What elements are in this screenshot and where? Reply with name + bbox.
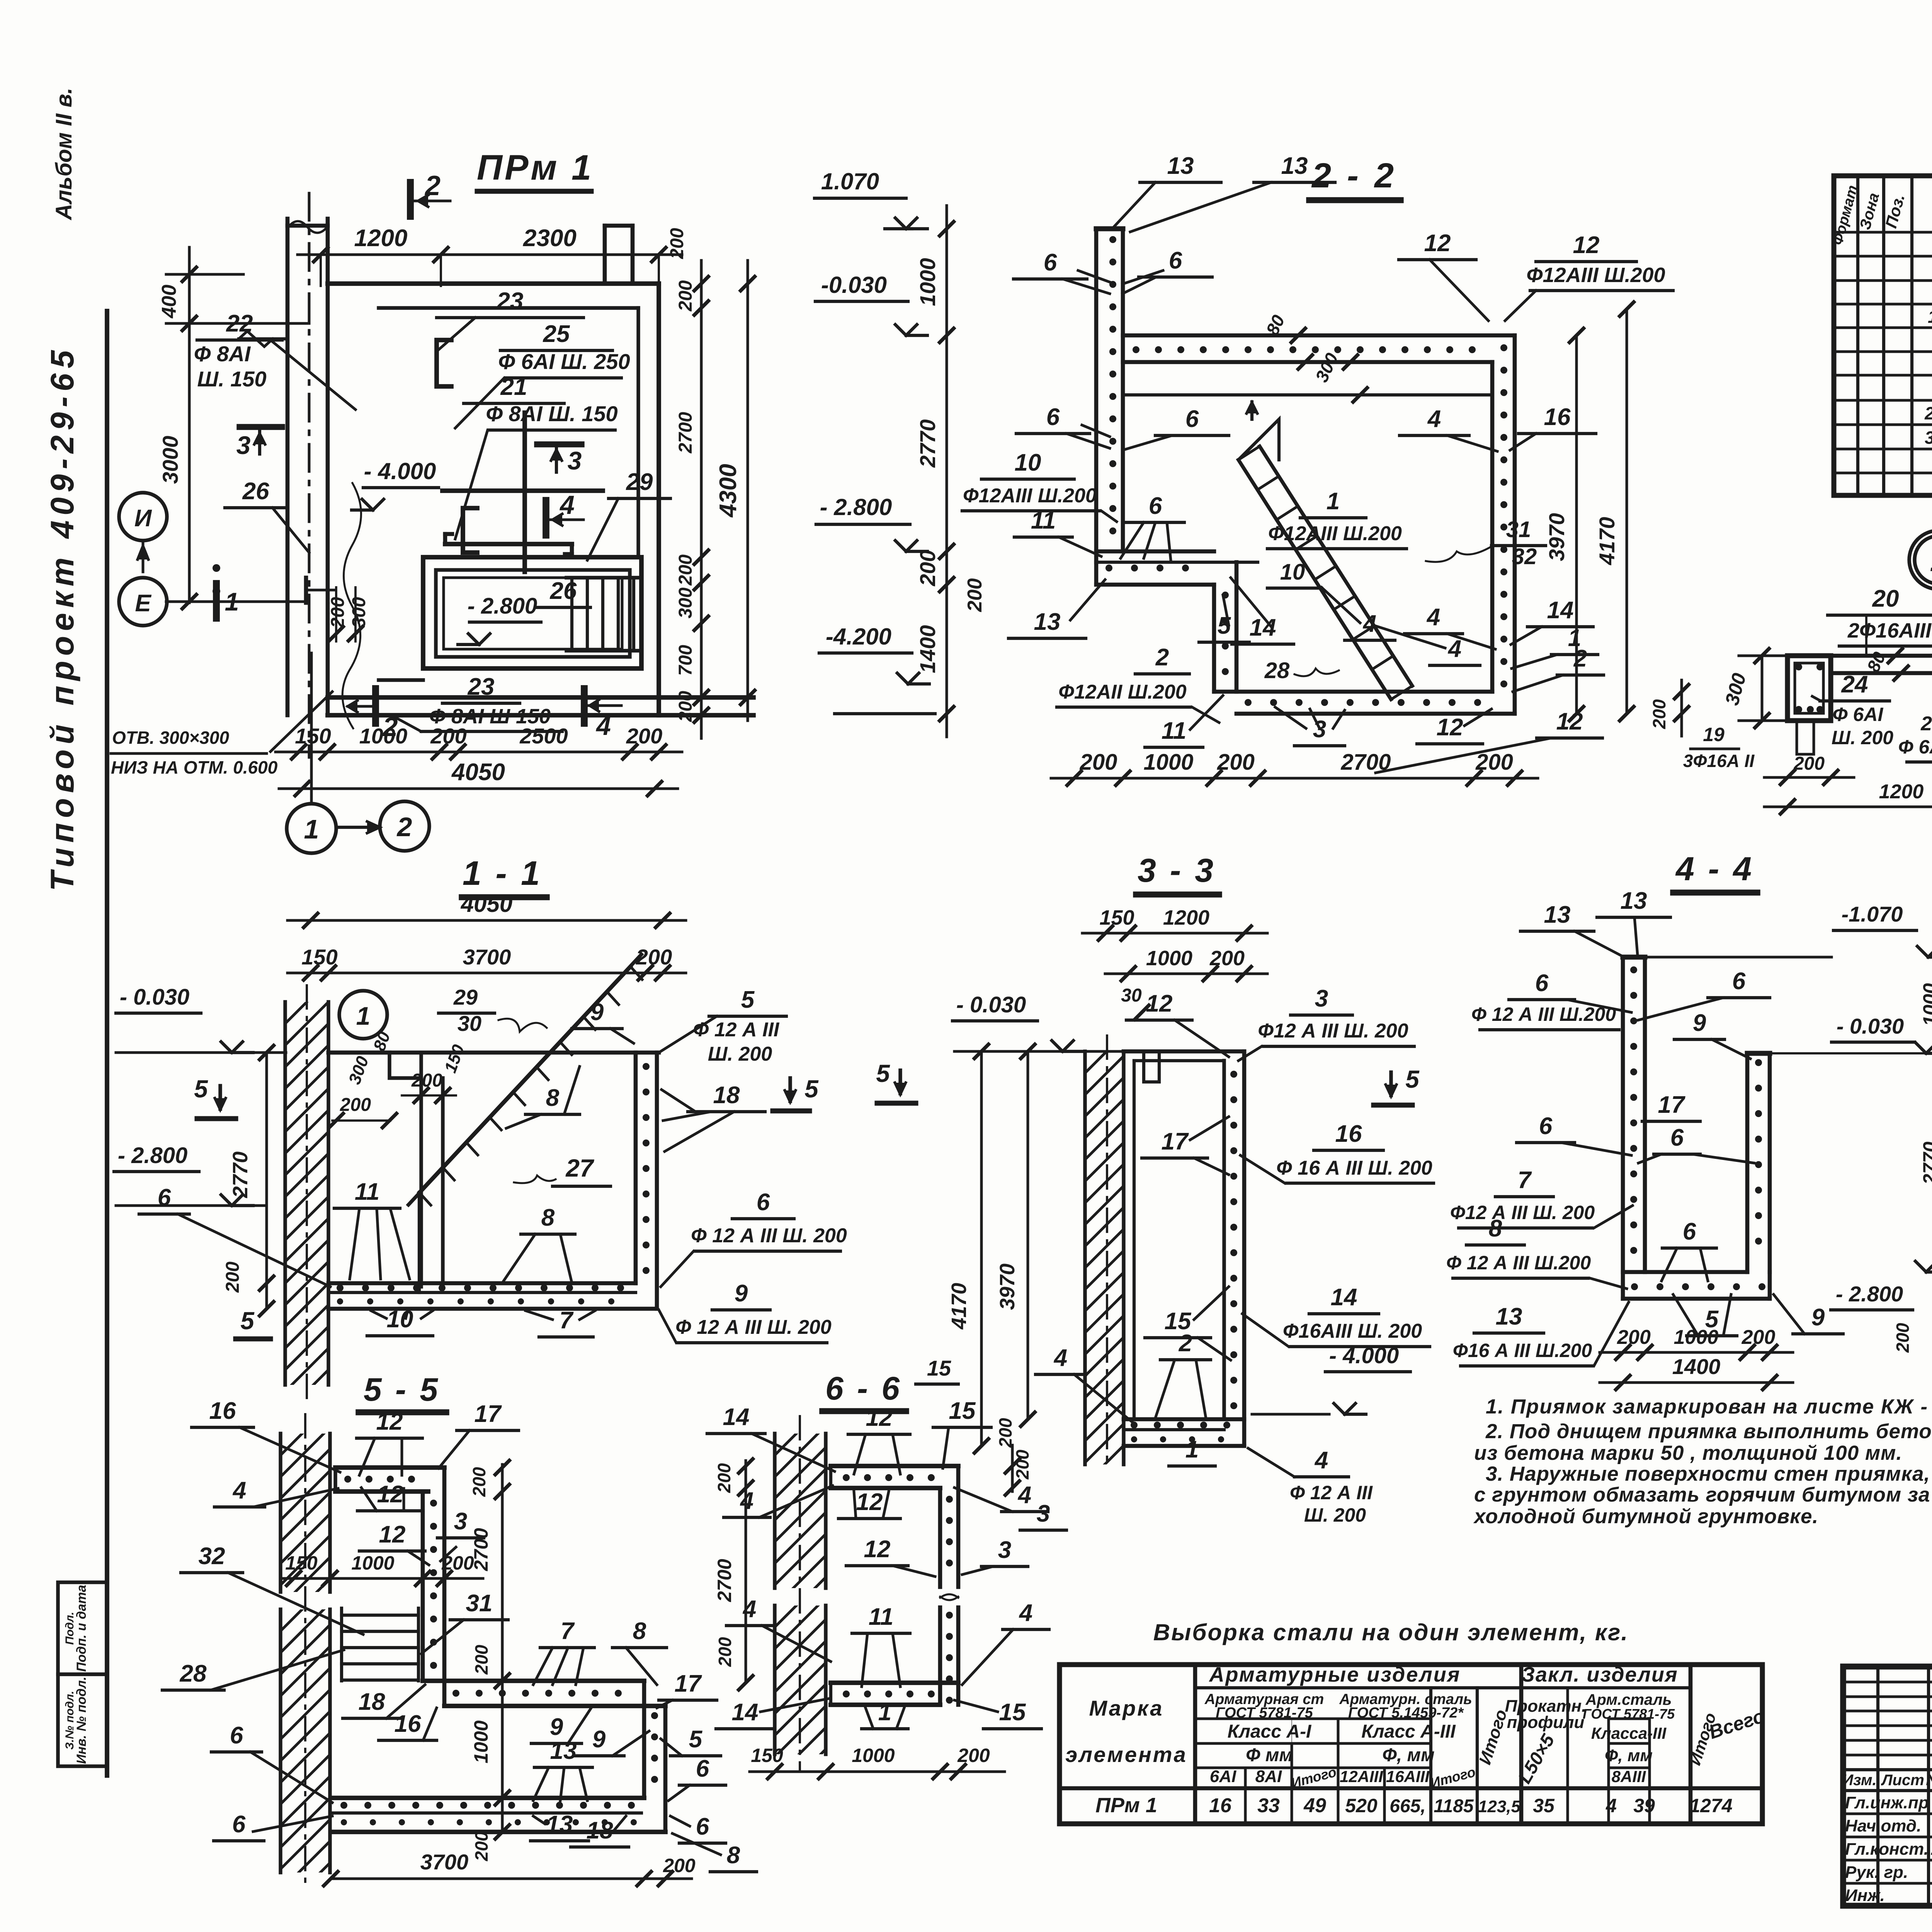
- svg-text:200: 200: [663, 1855, 696, 1876]
- svg-text:11: 11: [1031, 507, 1056, 534]
- svg-text:2770: 2770: [229, 1151, 252, 1198]
- svg-text:700: 700: [675, 645, 696, 676]
- svg-text:10: 10: [1280, 560, 1305, 585]
- 3-3: dims 1000 200: [1105, 973, 1267, 975]
- svg-text:4050: 4050: [451, 759, 505, 786]
- 5-5: bottom dims 3700 200: [331, 1878, 692, 1880]
- svg-text:-0.030: -0.030: [821, 272, 887, 298]
- svg-text:31: 31: [466, 1590, 493, 1617]
- svg-text:1000: 1000: [470, 1720, 492, 1763]
- svg-text:6: 6: [158, 1184, 171, 1211]
- svg-text:из бетона марки 50 , тол: из бетона марки 50 , толщиной 100 мм.: [1474, 1442, 1902, 1464]
- svg-text:Арматурные изделия: Арматурные изделия: [1209, 1663, 1461, 1686]
- svg-text:1200: 1200: [354, 225, 408, 252]
- svg-text:17: 17: [1162, 1128, 1189, 1155]
- svg-text:6: 6: [1732, 968, 1746, 995]
- svg-text:3: 3: [1315, 985, 1328, 1012]
- svg-text:1274: 1274: [1689, 1795, 1732, 1816]
- plan: section mark 2 bottom: [372, 689, 379, 723]
- svg-text:Ш. 200: Ш. 200: [1832, 727, 1893, 748]
- 2-2: right dim 4170: [1626, 309, 1628, 714]
- detail 1: dim 300: [1761, 656, 1764, 721]
- svg-text:- 2.800: - 2.800: [118, 1143, 188, 1168]
- svg-text:200: 200: [957, 1745, 990, 1766]
- svg-text:Е: Е: [135, 590, 151, 617]
- 5-5: mid slab: [423, 1679, 644, 1683]
- svg-text:2: 2: [1179, 1330, 1192, 1357]
- svg-text:ГОСТ 5781-75: ГОСТ 5781-75: [1216, 1705, 1313, 1721]
- svg-text:15: 15: [999, 1699, 1026, 1726]
- svg-text:39: 39: [1633, 1795, 1655, 1816]
- svg-text:холодной битумной грунтовке.: холодной битумной грунтовке.: [1473, 1505, 1818, 1528]
- svg-text:33: 33: [1257, 1794, 1280, 1817]
- svg-text:11: 11: [355, 1179, 379, 1205]
- 2-2: top slab right part: [1123, 333, 1515, 338]
- svg-text:- 0.030: - 0.030: [956, 992, 1026, 1017]
- svg-text:Ф12АIII Ш.200: Ф12АIII Ш.200: [963, 485, 1097, 507]
- svg-text:200: 200: [1742, 1326, 1776, 1349]
- svg-text:12: 12: [376, 1408, 403, 1435]
- svg-text:6: 6: [1670, 1124, 1684, 1151]
- svg-text:6: 6: [1149, 493, 1162, 519]
- svg-text:150: 150: [1099, 906, 1134, 929]
- svg-text:Ф 12 А III Ш. 200: Ф 12 А III Ш. 200: [691, 1225, 847, 1247]
- svg-text:4: 4: [1427, 406, 1441, 432]
- svg-text:200: 200: [1617, 1326, 1651, 1349]
- svg-text:16: 16: [1209, 1794, 1232, 1817]
- 1-1: diagonal stair: [419, 954, 641, 1192]
- svg-text:200: 200: [667, 228, 687, 259]
- svg-text:3: 3: [998, 1537, 1011, 1563]
- 1-1: bottom slab: [328, 1281, 636, 1286]
- svg-text:Ф, мм: Ф, мм: [1382, 1745, 1434, 1765]
- svg-text:12: 12: [1146, 990, 1173, 1017]
- svg-text:9: 9: [735, 1280, 748, 1307]
- plan: section mark 2 top: [407, 182, 414, 216]
- svg-text:1: 1: [1930, 543, 1932, 578]
- 1-1: pit top edge: [328, 1051, 659, 1055]
- 2-2: bottom slab: [1214, 690, 1492, 694]
- svg-text:-4.200: -4.200: [826, 624, 891, 650]
- svg-text:Ф 6АI Ш. 250: Ф 6АI Ш. 250: [498, 349, 630, 374]
- svg-text:1185: 1185: [1434, 1796, 1474, 1816]
- svg-text:200: 200: [1080, 750, 1117, 775]
- svg-text:Ф 12 А III Ш. 200: Ф 12 А III Ш. 200: [675, 1316, 832, 1338]
- svg-text:1: 1: [1327, 488, 1340, 515]
- spec table grid: [1834, 176, 1932, 495]
- 5-5: dim 1000: [501, 1681, 504, 1798]
- plan: axis line vertical: [310, 653, 313, 804]
- svg-text:Ф, мм: Ф, мм: [1605, 1746, 1653, 1765]
- title block left columns: [1876, 1667, 1879, 1906]
- svg-text:Класс А-I: Класс А-I: [1228, 1721, 1312, 1742]
- svg-text:6: 6: [696, 1755, 709, 1782]
- svg-text:1.070: 1.070: [821, 168, 879, 194]
- svg-text:200: 200: [1012, 1449, 1032, 1480]
- svg-text:4: 4: [1019, 1600, 1032, 1626]
- svg-text:2700: 2700: [675, 412, 696, 454]
- svg-text:200: 200: [1209, 947, 1245, 970]
- svg-text:2Ф16АIII: 2Ф16АIII: [1847, 619, 1932, 642]
- svg-text:665,: 665,: [1389, 1796, 1425, 1816]
- 5-5: existing wall hatched band lower: [279, 1609, 282, 1872]
- svg-text:Ф 16 А III Ш. 200: Ф 16 А III Ш. 200: [1276, 1157, 1432, 1179]
- svg-text:5: 5: [876, 1060, 890, 1087]
- svg-text:4: 4: [595, 711, 611, 741]
- svg-text:29;30: 29;30: [1924, 403, 1932, 423]
- 3-3: section 5 mark right: [1389, 1072, 1393, 1095]
- plan: right dim 4300: [747, 260, 749, 721]
- svg-text:12: 12: [866, 1405, 893, 1431]
- 1-1: right wall: [634, 1053, 638, 1283]
- svg-text:6: 6: [1046, 404, 1060, 430]
- svg-text:3 - 3: 3 - 3: [1138, 852, 1216, 889]
- svg-text:1 - 1: 1 - 1: [463, 854, 542, 892]
- svg-text:16АIII: 16АIII: [1386, 1767, 1430, 1786]
- 1-1: axis dashdot in wall: [306, 985, 308, 1399]
- 2-2: stair upper guard triangle: [1238, 419, 1279, 460]
- svg-text:5: 5: [240, 1307, 255, 1335]
- 2-2: rebar dots bottom slab: [1245, 699, 1252, 706]
- svg-text:9: 9: [592, 1726, 606, 1753]
- svg-text:8АIII: 8АIII: [1612, 1767, 1646, 1786]
- plan: top dimension 1200 / 2300: [298, 253, 682, 256]
- svg-text:Подп. и дата: Подп. и дата: [74, 1585, 89, 1672]
- svg-text:4300: 4300: [715, 464, 742, 518]
- svg-text:1: 1: [356, 1002, 371, 1030]
- svg-text:200: 200: [626, 724, 662, 748]
- svg-text:Типовой проект 409-29-65: Типовой проект 409-29-65: [44, 345, 80, 891]
- svg-text:200: 200: [675, 554, 696, 586]
- svg-text:Ф16АIII Ш. 200: Ф16АIII Ш. 200: [1283, 1320, 1422, 1342]
- svg-text:Ф мм: Ф мм: [1246, 1745, 1293, 1765]
- svg-text:12АIII: 12АIII: [1340, 1767, 1383, 1786]
- svg-text:Ф12 А III Ш. 200: Ф12 А III Ш. 200: [1258, 1020, 1408, 1042]
- svg-text:31: 31: [1506, 517, 1531, 542]
- svg-text:520: 520: [1345, 1795, 1378, 1816]
- 2-2: left vertical dim chain: [946, 206, 948, 737]
- svg-text:12: 12: [379, 1521, 406, 1548]
- svg-text:3970: 3970: [996, 1264, 1019, 1310]
- svg-text:10: 10: [1015, 449, 1041, 476]
- svg-text:1000: 1000: [1146, 947, 1192, 970]
- svg-text:6: 6: [1535, 970, 1549, 997]
- svg-text:13: 13: [1544, 901, 1571, 928]
- svg-text:200: 200: [714, 1463, 734, 1493]
- svg-text:1000: 1000: [359, 724, 408, 748]
- svg-text:12: 12: [864, 1536, 891, 1563]
- svg-text:Гл.инж.пр: Гл.инж.пр: [1845, 1793, 1929, 1812]
- svg-text:32: 32: [199, 1543, 225, 1570]
- plan: wall top break wave: [286, 219, 290, 226]
- svg-text:30: 30: [1121, 985, 1142, 1006]
- svg-text:16: 16: [1544, 404, 1571, 430]
- svg-text:200: 200: [675, 280, 696, 311]
- svg-text:10: 10: [387, 1306, 413, 1333]
- plan: embedded detail marks (C-shapes): [437, 340, 451, 386]
- 4-4: dim 1400: [1600, 1381, 1793, 1384]
- svg-text:3700: 3700: [420, 1850, 469, 1874]
- 2-2: right dim 3970: [1575, 335, 1578, 714]
- svg-text:2300: 2300: [523, 225, 577, 252]
- svg-text:3970: 3970: [1544, 513, 1569, 561]
- svg-text:4: 4: [232, 1477, 246, 1504]
- svg-text:Инв. № подл.: Инв. № подл.: [74, 1677, 89, 1764]
- svg-text:профили: профили: [1507, 1713, 1585, 1732]
- vyborka header structure: [1195, 1686, 1521, 1689]
- svg-text:Марка: Марка: [1089, 1696, 1164, 1720]
- svg-text:4: 4: [1426, 604, 1440, 631]
- 2-2: left wall: [1094, 229, 1099, 562]
- svg-text:1200: 1200: [1879, 781, 1924, 803]
- 2-2: rebar dots left wall: [1109, 236, 1116, 243]
- svg-text:28: 28: [1264, 658, 1290, 683]
- svg-text:1000: 1000: [1919, 983, 1932, 1026]
- svg-text:15: 15: [927, 1356, 951, 1380]
- svg-text:200: 200: [328, 597, 348, 628]
- svg-text:26: 26: [242, 478, 269, 505]
- 2-2: step wall: [1212, 585, 1216, 692]
- svg-text:2: 2: [396, 812, 412, 842]
- svg-text:11: 11: [1162, 718, 1186, 744]
- svg-text:ГОСТ 5781-75: ГОСТ 5781-75: [1583, 1706, 1675, 1722]
- svg-text:4 - 4: 4 - 4: [1675, 850, 1754, 888]
- svg-text:Ф 12 А III Ш.200: Ф 12 А III Ш.200: [1446, 1252, 1591, 1274]
- axis dim 3000 / 400: [188, 247, 191, 603]
- svg-text:ГОСТ 5,1459-72*: ГОСТ 5,1459-72*: [1348, 1705, 1464, 1721]
- 6-6: lower slab: [831, 1680, 958, 1685]
- svg-text:17: 17: [474, 1401, 502, 1427]
- svg-text:5: 5: [689, 1726, 703, 1753]
- svg-text:29: 29: [626, 469, 653, 495]
- svg-text:- 2.800: - 2.800: [820, 494, 892, 520]
- svg-text:Инж.: Инж.: [1845, 1886, 1885, 1905]
- svg-text:23: 23: [497, 288, 524, 315]
- svg-text:13: 13: [546, 1811, 573, 1838]
- plan: cross rebars mark 25/21: [522, 413, 527, 572]
- svg-text:Закл. изделия: Закл. изделия: [1521, 1663, 1678, 1686]
- 2-2: rebar dots top slab: [1133, 346, 1139, 353]
- 2-2: rebar dots lower slab: [1105, 565, 1112, 571]
- detail 1: slab line: [1831, 654, 1932, 658]
- 5-5: right wall lower: [642, 1681, 646, 1798]
- svg-text:Ш. 200: Ш. 200: [708, 1043, 772, 1065]
- svg-text:4: 4: [1053, 1345, 1067, 1371]
- svg-text:7: 7: [560, 1307, 574, 1334]
- svg-text:Ф12АIII Ш.200: Ф12АIII Ш.200: [1526, 264, 1665, 287]
- svg-text:НИЗ НА ОТМ. 0.600: НИЗ НА ОТМ. 0.600: [111, 757, 278, 777]
- svg-text:5: 5: [194, 1075, 208, 1103]
- svg-text:4: 4: [742, 1596, 756, 1622]
- svg-text:200: 200: [471, 1645, 492, 1675]
- svg-text:ПРм 1: ПРм 1: [1095, 1794, 1157, 1817]
- svg-text:20: 20: [1872, 585, 1899, 612]
- svg-text:- 4.000: - 4.000: [364, 458, 436, 484]
- svg-text:18: 18: [587, 1817, 613, 1844]
- svg-text:15: 15: [949, 1398, 976, 1424]
- svg-text:18: 18: [359, 1689, 385, 1715]
- svg-text:32: 32: [1512, 544, 1537, 569]
- svg-text:13: 13: [1496, 1303, 1522, 1330]
- svg-text:Класса-III: Класса-III: [1591, 1724, 1667, 1742]
- svg-text:Подл.: Подл.: [63, 1612, 76, 1645]
- svg-text:3Ф16А II: 3Ф16А II: [1683, 751, 1755, 771]
- plan: section mark 3 right: [537, 441, 582, 447]
- svg-text:200: 200: [1217, 750, 1255, 775]
- 1-1: existing wall hatched: [283, 1002, 287, 1385]
- svg-text:Ф 6АI: Ф 6АI: [1833, 704, 1884, 725]
- plan: bottom dims 150 1000 200 2500 200: [276, 751, 682, 753]
- title block left thin rows: [1843, 1681, 1932, 1684]
- svg-text:2770: 2770: [915, 419, 940, 468]
- svg-text:З.№ подл.: З.№ подл.: [63, 1691, 76, 1750]
- svg-text:16: 16: [395, 1711, 421, 1737]
- svg-text:17: 17: [1658, 1092, 1685, 1118]
- svg-text:400: 400: [158, 285, 180, 319]
- svg-text:1000: 1000: [852, 1745, 895, 1766]
- svg-text:1400: 1400: [915, 625, 940, 673]
- svg-text:7: 7: [1518, 1167, 1532, 1194]
- 1-1: section mark 5 right: [788, 1078, 792, 1101]
- svg-text:3: 3: [454, 1508, 467, 1535]
- svg-text:200: 200: [471, 1831, 492, 1861]
- svg-text:1: 1: [225, 587, 239, 616]
- svg-text:- 2.800: - 2.800: [1836, 1282, 1903, 1306]
- 6-6: right wall upper: [938, 1488, 942, 1587]
- svg-text:4: 4: [1362, 611, 1376, 637]
- svg-text:12: 12: [856, 1489, 883, 1515]
- svg-text:1: 1: [1185, 1436, 1199, 1463]
- svg-text:3700: 3700: [463, 945, 511, 969]
- svg-text:123,5: 123,5: [1478, 1797, 1521, 1816]
- svg-text:-1.070: -1.070: [1842, 902, 1903, 926]
- svg-text:200: 200: [995, 1418, 1015, 1448]
- svg-text:12: 12: [377, 1481, 404, 1508]
- svg-text:3: 3: [568, 446, 582, 475]
- svg-text:Ф12АIII Ш.200: Ф12АIII Ш.200: [1268, 522, 1402, 545]
- svg-text:Ф 12 А III Ш.200: Ф 12 А III Ш.200: [1471, 1003, 1616, 1025]
- svg-text:Ф 12 А III: Ф 12 А III: [1290, 1482, 1373, 1503]
- svg-text:- 2.800: - 2.800: [468, 594, 537, 619]
- 2-2: rebar dots right wall: [1500, 344, 1507, 351]
- 1-1: mid wall lines: [419, 1053, 423, 1287]
- svg-text:1: 1: [878, 1699, 891, 1726]
- 3-3: rebar dots: [1230, 1071, 1237, 1078]
- 6-6: break marks right wall: [940, 1594, 958, 1600]
- svg-text:29: 29: [453, 985, 478, 1009]
- 3-3: dims 150 1200: [1082, 932, 1267, 935]
- svg-text:14: 14: [732, 1699, 759, 1726]
- 3-3: pit walls: [1124, 1049, 1244, 1054]
- svg-text:9: 9: [1811, 1304, 1825, 1331]
- svg-text:16: 16: [1335, 1121, 1362, 1147]
- svg-text:4: 4: [1605, 1795, 1617, 1816]
- svg-text:Лист: Лист: [1881, 1772, 1924, 1789]
- plan: bottom dim 4050: [279, 787, 678, 790]
- svg-text:Ф 6АI Ш. 250: Ф 6АI Ш. 250: [1898, 736, 1932, 758]
- title block outer: [1843, 1667, 1932, 1906]
- svg-text:- 4.000: - 4.000: [1329, 1343, 1399, 1368]
- svg-text:26: 26: [550, 578, 577, 604]
- 6-6: right small dim 200: [1011, 1445, 1014, 1492]
- 6-6: right wall lower: [938, 1607, 942, 1705]
- svg-text:8: 8: [541, 1204, 555, 1231]
- svg-text:6: 6: [757, 1189, 770, 1216]
- 5-5: right wall upper: [421, 1492, 425, 1681]
- svg-text:14: 14: [1547, 597, 1574, 624]
- plan: inner pit rectangle (walls): [423, 557, 641, 668]
- svg-text:35: 35: [1533, 1795, 1555, 1816]
- svg-text:Ф 8АI: Ф 8АI: [194, 342, 251, 366]
- svg-text:4050: 4050: [461, 891, 512, 917]
- sheet frame left line: [105, 311, 109, 1776]
- svg-text:2: 2: [424, 170, 440, 201]
- svg-text:200: 200: [715, 1637, 735, 1667]
- svg-text:4: 4: [1017, 1482, 1031, 1509]
- 1-1: dim 4050: [287, 919, 686, 922]
- plan: stair flight bars: [570, 580, 573, 651]
- 4-4: bottom slab: [1623, 1270, 1747, 1274]
- 6-6: top slab: [831, 1464, 958, 1468]
- svg-text:- 0.030: - 0.030: [120, 985, 190, 1010]
- svg-text:25: 25: [543, 321, 570, 347]
- svg-text:200: 200: [340, 1095, 371, 1115]
- svg-text:28: 28: [180, 1660, 207, 1687]
- svg-text:200: 200: [964, 578, 986, 612]
- svg-text:6 - 6: 6 - 6: [825, 1370, 902, 1406]
- svg-text:21: 21: [500, 374, 527, 400]
- svg-text:- 0.030: - 0.030: [1837, 1014, 1904, 1038]
- svg-text:8: 8: [633, 1618, 646, 1645]
- 4-4: left wall: [1621, 957, 1625, 1299]
- svg-text:17: 17: [675, 1670, 702, 1697]
- svg-text:4: 4: [559, 490, 575, 520]
- svg-text:1: 1: [304, 814, 319, 844]
- svg-text:3. Наружные поверхности стен: 3. Наружные поверхности стен приямка, со…: [1486, 1463, 1932, 1485]
- svg-text:Альбом II в.: Альбом II в.: [51, 88, 77, 221]
- svg-text:1000: 1000: [915, 258, 940, 306]
- svg-text:Изм.: Изм.: [1842, 1772, 1876, 1789]
- svg-text:Ф16 А III Ш.200: Ф16 А III Ш.200: [1453, 1340, 1592, 1361]
- svg-text:Ш. 150: Ш. 150: [197, 367, 266, 391]
- svg-text:49: 49: [1303, 1794, 1326, 1817]
- svg-text:6: 6: [1683, 1218, 1696, 1245]
- vyborka grid: [1060, 1665, 1762, 1824]
- 6-6: dim 2700: [745, 1488, 747, 1683]
- svg-text:2. Под днищем приямка выпол: 2. Под днищем приямка выполнить бетонную…: [1485, 1420, 1932, 1443]
- svg-text:с грунтом обмазать горячим: с грунтом обмазать горячим битумом за 2 …: [1474, 1483, 1932, 1506]
- svg-text:1200: 1200: [1163, 906, 1209, 929]
- svg-text:11: 11: [869, 1604, 893, 1630]
- svg-text:6АI: 6АI: [1210, 1767, 1236, 1786]
- svg-text:1000: 1000: [1143, 750, 1193, 775]
- svg-text:150: 150: [295, 724, 331, 748]
- svg-text:23: 23: [468, 673, 495, 700]
- svg-text:ПРм 1: ПРм 1: [477, 148, 594, 187]
- svg-text:19: 19: [1703, 724, 1725, 745]
- svg-text:Класс А-III: Класс А-III: [1361, 1721, 1456, 1742]
- svg-text:ОТВ. 300×300: ОТВ. 300×300: [112, 728, 229, 748]
- 1-1: detail circle 1: [339, 991, 387, 1039]
- 5-5: right dim 2700: [501, 1492, 504, 1681]
- svg-text:200: 200: [1893, 1323, 1913, 1353]
- svg-text:6: 6: [696, 1813, 709, 1840]
- svg-text:4: 4: [1447, 636, 1461, 662]
- svg-text:8: 8: [727, 1842, 740, 1869]
- svg-text:14: 14: [723, 1404, 750, 1430]
- svg-text:200: 200: [1649, 699, 1669, 729]
- svg-text:200: 200: [915, 550, 940, 586]
